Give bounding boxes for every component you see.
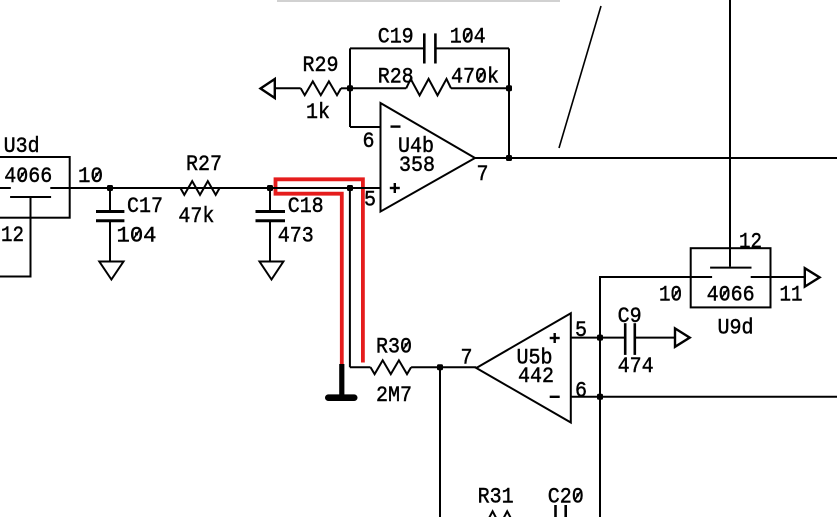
U4b pin 5 label (364, 188, 376, 213)
U4b pin 6 label (363, 129, 375, 154)
wire R30 to U5b pin 7 (411, 366, 476, 368)
R29 value 1k (306, 100, 330, 125)
capacitor C18 top stem wire (269, 188, 271, 211)
capacitor C17 bottom stem wire (109, 221, 111, 261)
output port arrow at U9d pin 11 (805, 268, 820, 286)
svg-text:5: 5 (575, 318, 587, 343)
C18 refdes label (288, 194, 324, 219)
svg-text:11: 11 (780, 283, 803, 308)
U3d switch control bar (10, 196, 51, 198)
U9d value 4066 (707, 283, 755, 308)
U3d switch symbol left stub (0, 187, 11, 189)
svg-text:104: 104 (450, 25, 486, 50)
output port arrow at C9 (675, 328, 690, 346)
U9d pin 10 label (659, 283, 682, 308)
wire port to R29 (275, 87, 301, 89)
svg-text:5: 5 (364, 188, 376, 213)
wire U5b pin 6 to right edge (571, 396, 837, 398)
wire vertical to U9d pin 12 (729, 0, 731, 267)
U4b pin 7 label (477, 162, 489, 187)
wire C9 to output port (635, 337, 675, 339)
C20 refdes label (548, 485, 584, 510)
svg-text:10: 10 (659, 283, 682, 308)
wire U9d pin 10 to U5b pin 5 node (600, 277, 691, 338)
C17 value 104 (117, 224, 157, 249)
U3d refdes label (4, 134, 40, 159)
wire C19 top left segment (350, 47, 424, 49)
svg-text:R31: R31 (478, 485, 514, 510)
ground symbol below C18 (260, 262, 284, 280)
svg-text:7: 7 (477, 162, 489, 187)
wire node to R28 (350, 87, 406, 89)
svg-text:U9d: U9d (718, 316, 754, 341)
wire U9d pin 11 to output port (771, 276, 805, 278)
U9d switch stubs (691, 276, 712, 278)
capacitor C18 bottom stem wire (269, 221, 271, 261)
svg-text:1k: 1k (306, 100, 330, 125)
R29 refdes label (303, 53, 339, 78)
R27 value 47k (178, 204, 214, 229)
svg-text:358: 358 (399, 153, 435, 178)
highlighted ground stub (red over black) (339, 364, 344, 395)
R28 refdes label (378, 65, 414, 90)
wire vertical x600 down to bottom edge (599, 338, 601, 517)
U5b non-inverting input plus sign (550, 337, 560, 339)
U5b pin 5 label (575, 318, 587, 343)
svg-text:6: 6 (575, 378, 587, 403)
C17 refdes label (127, 194, 163, 219)
svg-text:R30: R30 (376, 335, 412, 360)
op-amp U4b triangle (381, 103, 476, 212)
U4b value 358 (399, 153, 435, 178)
svg-text:C18: C18 (288, 194, 324, 219)
resistor R28 zigzag (406, 79, 451, 96)
svg-text:C17: C17 (127, 194, 163, 219)
U4b refdes label (398, 134, 434, 159)
wire remnant (faint) top edge (277, 0, 560, 2)
U5b inverting input minus sign (550, 396, 560, 398)
wire vertical x440 down to bottom edge (439, 367, 441, 517)
ground bar symbol (bold) (328, 394, 354, 401)
wire U5b pin 5 to C9 (571, 337, 625, 339)
wire U4b output to right edge (475, 157, 837, 159)
svg-text:47k: 47k (178, 204, 214, 229)
resistor R27 zigzag (180, 181, 219, 195)
junction dots (net connections) (107, 85, 603, 400)
wire diagonal segment (no-connect marker) (559, 6, 601, 148)
U9d refdes label (718, 316, 754, 341)
C18 value 473 (278, 224, 314, 249)
wire node down to R30 (vertical) (349, 188, 351, 367)
svg-text:12: 12 (739, 230, 762, 255)
svg-text:R28: R28 (378, 65, 414, 90)
U5b pin 6 label (575, 378, 587, 403)
wire corner to R30 (350, 366, 371, 368)
svg-text:442: 442 (518, 364, 554, 389)
U3d value 4066 (4, 164, 52, 189)
U9d pin 11 label (780, 283, 803, 308)
IC U3d body (4066 analog switch, partially off-canvas) (0, 157, 70, 218)
highlighted net (red) routing trace (276, 179, 363, 365)
svg-text:R29: R29 (303, 53, 339, 78)
ground symbol below C17 (99, 262, 123, 280)
svg-text:12: 12 (1, 223, 24, 248)
wire feedback right vertical (508, 48, 510, 158)
capacitor C18 plates (256, 210, 286, 213)
svg-text:C20: C20 (548, 485, 584, 510)
U5b refdes label (517, 346, 553, 371)
wire R29 to node (341, 87, 350, 89)
R31 refdes label (478, 485, 514, 510)
wire R28 to right node (451, 87, 509, 89)
svg-text:4066: 4066 (4, 164, 52, 189)
svg-text:R27: R27 (186, 152, 222, 177)
C19 refdes label (378, 25, 414, 50)
resistor R30 zigzag (371, 360, 412, 374)
svg-text:474: 474 (618, 354, 654, 379)
svg-text:U3d: U3d (4, 134, 40, 159)
R27 refdes label (186, 152, 222, 177)
R28 value 470k (451, 65, 499, 90)
wire main net U3d pin10 to U4b +input (50, 187, 380, 189)
C9 value 474 (618, 354, 654, 379)
svg-text:104: 104 (117, 224, 157, 249)
capacitor C19 plates (423, 33, 426, 63)
C19 value 104 (450, 25, 486, 50)
capacitor C9 plates (624, 323, 627, 355)
resistor R29 zigzag (301, 81, 341, 95)
svg-text:6: 6 (363, 129, 375, 154)
IC U9d body (4066 analog switch) (691, 248, 771, 307)
svg-text:2M7: 2M7 (376, 383, 412, 408)
svg-text:4066: 4066 (707, 283, 755, 308)
svg-text:C19: C19 (378, 25, 414, 50)
U4b non-inverting input plus sign (390, 187, 400, 189)
U9d pin 12 label (739, 230, 762, 255)
U5b pin 7 label (461, 346, 473, 371)
U9d switch control bar (710, 267, 751, 269)
U4b inverting input minus sign (391, 125, 401, 127)
U3d pin 12 label (1, 223, 24, 248)
wire U4b inverting input (350, 126, 381, 128)
U5b value 442 (518, 364, 554, 389)
capacitor C20 plates (partial at bottom edge) (554, 505, 557, 517)
svg-text:470k: 470k (451, 65, 499, 90)
op-amp U5b triangle (pointing left) (476, 313, 571, 422)
wire U3d pin 12 (control) (0, 197, 31, 277)
svg-text:473: 473 (278, 224, 314, 249)
input port arrow (left of R29) (261, 79, 275, 98)
svg-text:10: 10 (78, 164, 103, 189)
U3d pin 10 label (78, 164, 103, 189)
C9 refdes label (618, 304, 642, 329)
R30 refdes label (376, 335, 412, 360)
resistor R31 zigzag (partial at bottom edge) (482, 511, 519, 517)
svg-text:C9: C9 (618, 304, 642, 329)
R30 value 2M7 (376, 383, 412, 408)
capacitor C17 top stem wire (109, 188, 111, 211)
capacitor C17 plates (96, 210, 124, 213)
wire feedback left vertical (349, 48, 351, 127)
wire C19 top right segment (435, 47, 509, 49)
